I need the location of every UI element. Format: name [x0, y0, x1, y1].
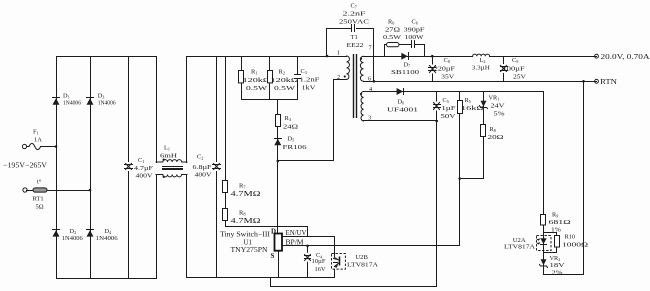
wire snubber loop	[385, 45, 387, 57]
capacitor C6 snubber	[411, 41, 413, 48]
op-amp U1 TinySwitch body	[275, 234, 283, 251]
COMPONENTS-LEFT	[3, 68, 320, 242]
inductor L1 common-mode choke	[156, 145, 187, 178]
capacitor C2	[193, 154, 222, 179]
wire R10 connectors	[544, 233, 557, 253]
wire fuse input	[27, 146, 29, 148]
wire pin 3 line	[364, 120, 437, 122]
wire U1 source lead	[278, 251, 280, 278]
TRANSFORMER	[337, 3, 373, 122]
terminal RTN	[595, 79, 599, 83]
svg-text:100W: 100W	[405, 34, 424, 41]
svg-text:10µF: 10µF	[312, 258, 327, 265]
svg-text:1A: 1A	[34, 137, 42, 144]
svg-text:FR106: FR106	[283, 144, 307, 151]
wire top rail right (to transformer pin 1)	[187, 56, 347, 58]
capacitor C3	[295, 74, 301, 76]
node fuse-bridge	[55, 145, 58, 148]
svg-text:EE22: EE22	[347, 42, 364, 49]
wire ground jog	[271, 278, 437, 287]
transformer secondary winding 7-6	[360, 56, 363, 81]
svg-text:16kΩ: 16kΩ	[461, 105, 485, 112]
diode D1	[53, 97, 60, 99]
wire thermistor input	[27, 190, 91, 192]
inductor L2	[473, 54, 490, 56]
polarity dot bias	[360, 93, 362, 95]
node C4 BP	[306, 245, 309, 248]
zener VR2	[540, 255, 566, 277]
node C7 return	[373, 80, 376, 83]
svg-text:6.8µF: 6.8µF	[193, 164, 213, 171]
svg-text:18V: 18V	[550, 262, 566, 269]
svg-text:U2B: U2B	[355, 254, 368, 261]
svg-text:1000Ω: 1000Ω	[562, 241, 588, 248]
zener VR1	[480, 94, 506, 117]
node pin3 C5	[435, 120, 438, 123]
wire sense resistor column R7/R8 to EN/UV	[226, 57, 308, 237]
svg-text:120kΩ: 120kΩ	[271, 77, 299, 84]
svg-text:6mH: 6mH	[160, 152, 178, 159]
node C7 left	[326, 55, 329, 58]
resistor R1	[239, 71, 244, 83]
svg-text:5%: 5%	[494, 110, 506, 117]
wire feedback column R9	[544, 82, 584, 275]
wire capacitor C9 column	[503, 57, 505, 82]
svg-text:24Ω: 24Ω	[283, 123, 298, 130]
diode D6	[397, 88, 404, 95]
svg-text:t°: t°	[37, 179, 42, 186]
wire capacitor C1 column	[128, 57, 130, 279]
svg-text:400V: 400V	[136, 172, 154, 179]
terminal input L	[22, 144, 26, 148]
svg-text:20.0V, 0.70A: 20.0V, 0.70A	[601, 53, 650, 61]
svg-text:7: 7	[369, 45, 372, 52]
wire resistor R2 column	[269, 57, 271, 100]
diode D4	[87, 229, 94, 231]
node RT1-bridge	[89, 189, 92, 192]
svg-text:LTV817A: LTV817A	[347, 262, 378, 269]
svg-text:2.2nF: 2.2nF	[343, 11, 367, 18]
transformer core	[353, 54, 355, 118]
node R8 R5 join	[458, 177, 461, 180]
wire source rail	[187, 277, 335, 279]
resistor R8 sense	[223, 209, 228, 221]
wire resistor R5 column	[459, 92, 461, 246]
svg-text:4.7MΩ: 4.7MΩ	[231, 217, 261, 225]
svg-text:TNY275PN: TNY275PN	[231, 246, 268, 254]
resistor R7	[223, 181, 228, 193]
svg-text:100µF: 100µF	[503, 66, 526, 73]
resistor R8	[481, 125, 486, 137]
wire capacitor C5 column	[436, 92, 438, 287]
svg-text:1N4006: 1N4006	[62, 236, 83, 242]
svg-text:BP/M: BP/M	[286, 239, 305, 247]
svg-text:S: S	[271, 252, 275, 260]
wire capacitor C4 column	[307, 246, 309, 278]
svg-text:SB1100: SB1100	[391, 69, 419, 76]
thermistor RT1	[33, 188, 47, 192]
svg-text:25V: 25V	[513, 74, 527, 81]
svg-text:D: D	[271, 228, 276, 236]
svg-text:R10: R10	[565, 233, 576, 240]
svg-text:1%: 1%	[551, 226, 562, 233]
wire capacitor C3 column	[297, 57, 299, 75]
svg-text:400V: 400V	[195, 172, 213, 179]
wire zener VR1 / R8 column	[460, 92, 484, 179]
svg-text:4.7MΩ: 4.7MΩ	[231, 190, 261, 198]
svg-text:1N4006: 1N4006	[98, 100, 116, 106]
svg-text:EN/UV: EN/UV	[286, 229, 307, 237]
node RTN junction	[582, 80, 585, 83]
wire opto emitter lead	[334, 270, 336, 278]
capacitor C1	[124, 157, 154, 179]
wire pin2 to drain	[278, 80, 347, 161]
resistor R6 snubber	[387, 43, 400, 47]
svg-text:5Ω: 5Ω	[36, 204, 44, 211]
svg-text:LTV817A: LTV817A	[504, 244, 535, 251]
wire return RTN line	[364, 81, 597, 83]
svg-text:0.5W: 0.5W	[246, 85, 268, 92]
svg-text:1N4006: 1N4006	[96, 236, 118, 242]
wire bias positive line pin 4	[364, 91, 544, 93]
svg-text:6: 6	[368, 76, 371, 83]
svg-text:−195V−265V: −195V−265V	[3, 160, 48, 169]
capacitor C8	[428, 57, 456, 81]
TINYSWITCH U1	[220, 228, 307, 261]
svg-text:1kV: 1kV	[302, 84, 317, 91]
wire capacitor C2 column	[216, 57, 218, 278]
svg-text:50V: 50V	[441, 113, 457, 120]
svg-text:27Ω: 27Ω	[385, 26, 400, 33]
node C8 top	[431, 55, 434, 58]
diode D2	[53, 229, 60, 231]
svg-text:1.2nF: 1.2nF	[300, 76, 321, 83]
svg-text:3.3µH: 3.3µH	[472, 65, 491, 72]
wire choke left bottom	[156, 175, 158, 279]
svg-text:1: 1	[337, 50, 340, 57]
diode U2A opto LED	[504, 236, 551, 251]
svg-text:120kΩ: 120kΩ	[243, 77, 271, 84]
capacitor C4	[303, 252, 326, 273]
terminal input N	[23, 188, 27, 192]
resistor R2	[268, 71, 273, 83]
WIRES-PRIMARY	[27, 29, 460, 287]
polarity dot secondary	[360, 58, 362, 60]
wire bridge column D3/D4	[90, 57, 92, 279]
wire choke left top	[156, 57, 158, 163]
wire EN/UV line	[283, 236, 335, 238]
svg-text:0.5W: 0.5W	[274, 85, 296, 92]
COMPONENTS-SECONDARY	[303, 19, 650, 277]
fuse F1	[29, 143, 41, 149]
wire resistor R1 column	[241, 57, 243, 100]
wire choke right bottom	[186, 175, 188, 278]
wire bridge bottom rail	[57, 278, 157, 280]
svg-text:16V: 16V	[315, 266, 326, 273]
svg-text:2%: 2%	[552, 270, 564, 277]
svg-text:3: 3	[368, 115, 371, 122]
WIRES-SECONDARY	[279, 45, 597, 287]
wire BP/M line	[283, 245, 460, 247]
wire output 20V line	[364, 56, 473, 58]
svg-text:1µF: 1µF	[442, 105, 457, 112]
svg-text:220µF: 220µF	[434, 66, 456, 73]
svg-text:2: 2	[337, 74, 340, 81]
svg-text:Tiny Switch−III: Tiny Switch−III	[220, 231, 271, 239]
svg-text:UF4001: UF4001	[387, 107, 418, 114]
resistor R5	[458, 101, 463, 114]
resistor R9	[541, 215, 546, 226]
svg-text:4.7µF: 4.7µF	[134, 165, 154, 172]
transformer bias winding 4-3	[361, 92, 363, 122]
capacitor C5	[432, 97, 456, 120]
wire capacitor C8 column	[432, 57, 434, 82]
svg-text:35V: 35V	[441, 74, 455, 81]
svg-text:RTN: RTN	[600, 78, 618, 86]
terminal output plus	[595, 54, 599, 58]
diode D5	[275, 138, 282, 140]
wire opto collector drop	[334, 237, 336, 254]
node pin2 drain	[277, 160, 280, 163]
capacitor C9	[499, 57, 526, 81]
transformer T1 primary winding	[347, 56, 350, 80]
diode D3	[87, 97, 94, 99]
svg-text:24V: 24V	[491, 102, 506, 109]
svg-text:1N4006: 1N4006	[63, 100, 81, 106]
polarity dot primary	[344, 75, 346, 77]
svg-text:0.5W: 0.5W	[383, 34, 401, 41]
wire C7 loop	[327, 29, 351, 57]
wire bridge column D1/D2	[56, 57, 58, 279]
svg-text:RT1: RT1	[33, 196, 44, 203]
wire drain column	[277, 100, 279, 233]
transistor U2B opto phototransistor	[332, 254, 379, 270]
capacitor C7 Y-cap	[351, 25, 353, 32]
svg-text:T1: T1	[351, 34, 358, 41]
svg-text:20Ω: 20Ω	[488, 134, 504, 141]
svg-text:390pF: 390pF	[404, 26, 426, 33]
resistor R3	[276, 115, 281, 127]
wire clamp bottom	[242, 99, 298, 101]
resistor R10	[555, 236, 560, 248]
wire choke right top	[186, 57, 188, 163]
diode D7	[401, 53, 408, 60]
wire top rail left (bridge + output)	[57, 56, 157, 58]
svg-text:250VAC: 250VAC	[339, 19, 369, 26]
svg-text:681Ω: 681Ω	[549, 219, 571, 226]
